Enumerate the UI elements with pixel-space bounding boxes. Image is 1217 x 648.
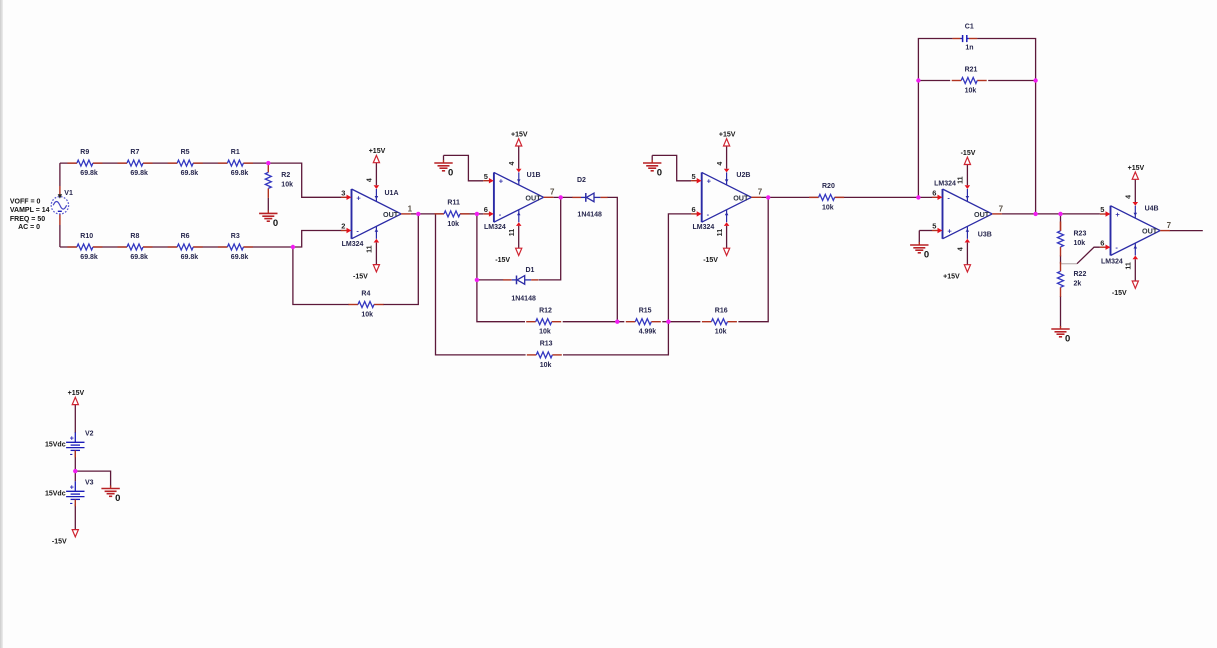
- junction D2-R12 node: [615, 320, 619, 324]
- V1 parameter text: [10, 199, 50, 231]
- junction R21 left node: [916, 78, 920, 82]
- wire U2B pin5 ground hook: [652, 155, 691, 180]
- svg-text:R15: R15: [639, 308, 652, 315]
- wire mid node to ground: [75, 471, 110, 486]
- svg-text:11: 11: [1126, 262, 1133, 270]
- svg-text:7: 7: [999, 204, 1004, 213]
- ground 0 at V2 V3 mid: [101, 486, 120, 504]
- wire U1B pin5 ground hook: [444, 155, 484, 180]
- junction R23 top node: [1058, 212, 1062, 216]
- wire top ladder to U1A pin3: [268, 163, 341, 197]
- svg-text:OUT: OUT: [525, 193, 541, 202]
- wire U1B ground stem: [443, 155, 445, 160]
- svg-text:OUT: OUT: [733, 193, 749, 202]
- svg-text:69.8k: 69.8k: [231, 254, 249, 261]
- wire bottom ladder to U1A pin2: [293, 231, 341, 248]
- wire bottom ladder net a: [60, 246, 77, 248]
- svg-text:-15V: -15V: [52, 538, 67, 545]
- power symbol -15V below V3: [52, 530, 78, 546]
- svg-text:5: 5: [1100, 205, 1104, 214]
- wire top ladder net c: [143, 162, 177, 164]
- svg-text:1N4148: 1N4148: [577, 212, 602, 219]
- power symbol +15V at U2B: [719, 132, 736, 147]
- wire R15 R16 row: [662, 321, 700, 323]
- wire U3B output row: [1002, 213, 1100, 215]
- svg-text:-: -: [499, 210, 502, 219]
- junction R1-R2 node: [266, 161, 270, 165]
- svg-text:11: 11: [509, 229, 516, 237]
- svg-text:U1A: U1A: [385, 190, 399, 197]
- svg-text:+15V: +15V: [1128, 165, 1145, 172]
- wire R23 bottom to junction: [1060, 255, 1062, 263]
- svg-text:C1: C1: [965, 23, 974, 30]
- svg-text:10k: 10k: [540, 362, 552, 369]
- svg-text:-15V: -15V: [703, 257, 718, 264]
- svg-text:69.8k: 69.8k: [130, 170, 148, 177]
- wire V2 top stem: [74, 405, 76, 433]
- resistor R6: [168, 233, 203, 261]
- svg-text:1N4148: 1N4148: [511, 296, 536, 303]
- svg-text:R8: R8: [130, 233, 139, 240]
- wire top ladder net d: [193, 162, 227, 164]
- wire U1B pin6 column: [477, 214, 525, 322]
- svg-text:-15V: -15V: [495, 257, 510, 264]
- svg-text:R5: R5: [181, 149, 190, 156]
- svg-text:+: +: [70, 485, 74, 492]
- svg-text:FREQ = 50: FREQ = 50: [10, 216, 45, 223]
- wire diagonal wire to U4B pin6: [1077, 247, 1100, 264]
- svg-text:4: 4: [367, 178, 374, 182]
- wire top ladder net b: [93, 162, 127, 164]
- wire top ladder net e: [243, 162, 268, 164]
- wire V1 bottom lead: [59, 225, 61, 247]
- svg-text:4.99k: 4.99k: [639, 329, 657, 336]
- wire R23 top lead wire: [1060, 222, 1062, 231]
- svg-text:LM324: LM324: [1101, 258, 1123, 265]
- wire bottom ladder net b: [93, 246, 127, 248]
- svg-text:1n: 1n: [965, 44, 973, 51]
- resistor R15: [626, 308, 661, 336]
- capacitor C1: [953, 23, 978, 51]
- svg-text:R11: R11: [447, 200, 460, 207]
- svg-text:+15V: +15V: [719, 132, 736, 139]
- svg-text:0: 0: [1065, 333, 1070, 344]
- wire R15-R16 node to U2B pin6: [668, 214, 691, 322]
- wire R16 to U2B output column: [738, 197, 768, 321]
- ground 0 below R22: [1051, 326, 1070, 344]
- power symbol -15V at U2B: [703, 248, 729, 264]
- svg-text:D2: D2: [577, 177, 586, 184]
- svg-text:69.8k: 69.8k: [181, 170, 199, 177]
- svg-text:VOFF = 0: VOFF = 0: [10, 199, 41, 206]
- svg-text:4: 4: [717, 162, 724, 166]
- svg-text:R20: R20: [822, 183, 835, 190]
- op-amp U3B: [932, 176, 1004, 251]
- wire V1 top pin: [59, 186, 61, 197]
- svg-text:15Vdc: 15Vdc: [45, 490, 66, 497]
- svg-text:7: 7: [1167, 221, 1172, 230]
- svg-text:V3: V3: [85, 479, 94, 486]
- svg-text:0: 0: [924, 249, 929, 260]
- svg-text:6: 6: [692, 205, 696, 214]
- svg-text:U1B: U1B: [527, 172, 541, 179]
- svg-text:11: 11: [958, 176, 965, 184]
- svg-text:R16: R16: [715, 308, 728, 315]
- svg-text:R2: R2: [281, 172, 290, 179]
- svg-text:+15V: +15V: [369, 148, 386, 155]
- wire D2 to R12 column: [607, 197, 617, 321]
- power symbol +15V at U1A: [369, 148, 386, 163]
- wire U3B V- stem: [966, 165, 968, 186]
- svg-text:VAMPL = 14: VAMPL = 14: [10, 207, 50, 214]
- wire R13 to R15 junction: [563, 322, 668, 355]
- svg-text:-: -: [947, 193, 950, 202]
- svg-text:-15V: -15V: [961, 150, 976, 157]
- svg-text:7: 7: [758, 188, 763, 197]
- wire V3 bottom stem: [74, 504, 76, 529]
- junction R11-U1B pin6 node: [475, 212, 479, 216]
- svg-text:0: 0: [657, 167, 662, 178]
- wire U2B V- stem: [726, 226, 728, 248]
- svg-text:4: 4: [509, 162, 516, 166]
- resistor R16: [702, 308, 737, 336]
- svg-text:R9: R9: [80, 149, 89, 156]
- svg-text:10k: 10k: [539, 329, 551, 336]
- wire D1 to output column: [539, 197, 561, 280]
- wire U2B V+ stem: [726, 146, 728, 169]
- svg-text:R1: R1: [231, 149, 240, 156]
- wire U1B V+ stem: [518, 146, 520, 169]
- svg-text:7: 7: [550, 188, 555, 197]
- junction U1A output node 1: [416, 212, 420, 216]
- svg-text:3: 3: [341, 188, 345, 197]
- svg-text:0: 0: [448, 167, 453, 178]
- svg-text:OUT: OUT: [1142, 227, 1158, 236]
- svg-text:+: +: [1115, 210, 1120, 219]
- svg-text:2: 2: [341, 222, 345, 231]
- svg-text:-: -: [70, 449, 73, 459]
- svg-text:69.8k: 69.8k: [130, 254, 148, 261]
- D2 labels: [577, 177, 602, 219]
- battery V3: [45, 479, 94, 508]
- svg-text:+: +: [70, 436, 74, 443]
- svg-text:+: +: [356, 193, 361, 202]
- wire U4B V+ stem: [1134, 179, 1136, 202]
- wire U1A output net a: [411, 213, 444, 215]
- svg-text:LM324: LM324: [693, 224, 715, 231]
- op-amp U4B: [1100, 195, 1172, 270]
- wire U1B output to D2: [553, 196, 572, 198]
- wire bottom ladder net e: [243, 246, 293, 248]
- wire U3B V+ stem: [966, 243, 968, 265]
- power symbol -15V at U1B: [495, 248, 521, 264]
- svg-text:R13: R13: [540, 341, 553, 348]
- wire U1B V- stem: [518, 226, 520, 248]
- wire U3B pin5 ground hook: [919, 230, 932, 232]
- wire R4 feedback right: [383, 214, 418, 305]
- svg-text:15Vdc: 15Vdc: [45, 441, 66, 448]
- svg-text:10k: 10k: [447, 221, 459, 228]
- wire U4B V- stem: [1134, 259, 1136, 281]
- junction bottom ladder node: [291, 245, 295, 249]
- wire U4B output wire: [1170, 230, 1203, 232]
- wire R23 top column: [1060, 214, 1062, 222]
- svg-text:+: +: [707, 177, 712, 186]
- svg-text:-: -: [1115, 243, 1118, 252]
- op-amp U1B: [483, 162, 555, 237]
- junction U3B pin6 node: [916, 195, 920, 199]
- resistor R4: [349, 290, 384, 318]
- svg-text:6: 6: [1100, 238, 1104, 247]
- svg-text:10k: 10k: [715, 329, 727, 336]
- resistor R9: [67, 149, 102, 177]
- svg-text:-: -: [707, 210, 710, 219]
- svg-text:11: 11: [717, 229, 724, 237]
- wire U1A output net b: [460, 213, 477, 215]
- wire node to R13 column: [436, 214, 526, 355]
- svg-text:R22: R22: [1074, 271, 1087, 278]
- svg-text:0: 0: [273, 218, 278, 229]
- resistor R20: [809, 183, 844, 211]
- wire R21 row right: [988, 80, 1035, 82]
- power symbol -15V at U3B: [961, 150, 976, 165]
- resistor R7: [118, 149, 153, 177]
- ground 0 at U3B pin5: [910, 242, 929, 260]
- svg-text:+: +: [947, 227, 952, 236]
- wire U1A V- stem: [375, 243, 377, 265]
- power symbol -15V at U1A: [353, 265, 379, 281]
- svg-text:10k: 10k: [822, 204, 834, 211]
- svg-text:11: 11: [367, 245, 374, 253]
- resistor R1: [218, 149, 253, 177]
- svg-text:6: 6: [484, 205, 488, 214]
- wire R22 bottom to ground: [1060, 296, 1062, 327]
- svg-text:+15V: +15V: [68, 390, 85, 397]
- wire bottom ladder net d: [193, 246, 227, 248]
- resistor R2: [265, 163, 293, 198]
- resistor R11: [435, 200, 470, 228]
- battery V2: [45, 430, 94, 459]
- diode D2: [572, 193, 607, 202]
- wire gray net segment: [1061, 263, 1078, 265]
- junction U2B output node 7: [766, 195, 770, 199]
- svg-text:R6: R6: [181, 233, 190, 240]
- svg-text:+: +: [499, 177, 504, 186]
- wire R12 row: [563, 321, 625, 323]
- power symbol -15V at U4B: [1112, 281, 1138, 297]
- svg-text:10k: 10k: [361, 311, 373, 318]
- power symbol +15V at U4B: [1128, 165, 1145, 180]
- svg-text:R23: R23: [1074, 230, 1087, 237]
- resistor R5: [168, 149, 203, 177]
- wire C1 right to column: [977, 39, 1036, 214]
- svg-text:R10: R10: [80, 233, 93, 240]
- svg-text:4: 4: [1126, 195, 1133, 199]
- wire top ladder net a: [60, 162, 77, 164]
- resistor R21: [952, 66, 987, 94]
- resistor R8: [118, 233, 153, 261]
- junction D1 anode node: [475, 278, 479, 282]
- svg-text:5: 5: [932, 222, 936, 231]
- wire R2 to ground: [267, 198, 269, 211]
- svg-text:LM324: LM324: [484, 224, 506, 231]
- junction R15-R16 node: [666, 320, 670, 324]
- wire bottom ladder net c: [143, 246, 177, 248]
- power symbol +15V at U1B: [511, 132, 528, 147]
- wire V1 top lead: [59, 163, 61, 186]
- svg-text:69.8k: 69.8k: [231, 170, 249, 177]
- wire V1 bottom pin: [59, 214, 61, 225]
- svg-text:-: -: [356, 227, 359, 236]
- svg-text:5: 5: [692, 172, 696, 181]
- svg-text:69.8k: 69.8k: [80, 170, 98, 177]
- power symbol +15V above V2: [68, 390, 85, 405]
- svg-text:-15V: -15V: [1112, 290, 1127, 297]
- wire R4 feedback left: [293, 247, 349, 305]
- junction R21 right node: [1033, 78, 1037, 82]
- svg-text:OUT: OUT: [383, 210, 399, 219]
- diode D1: [503, 276, 538, 285]
- junction U3B output node 7: [1033, 212, 1037, 216]
- ground 0 at U2B pin5: [643, 160, 662, 178]
- wire R21 row left: [918, 80, 950, 82]
- resistor R23: [1058, 221, 1087, 256]
- svg-text:6: 6: [932, 188, 936, 197]
- svg-text:10k: 10k: [1074, 240, 1086, 247]
- svg-text:2k: 2k: [1074, 281, 1082, 288]
- wire U3B pin5 ground drop: [918, 231, 920, 243]
- junction V2-V3 mid node: [73, 469, 77, 473]
- svg-text:D1: D1: [526, 267, 535, 274]
- wire R20 to U3B pin6: [835, 196, 932, 198]
- voltage source V1: [51, 190, 73, 214]
- svg-text:AC = 0: AC = 0: [18, 224, 40, 231]
- op-amp U2B: [691, 162, 763, 237]
- wire feedback column left: [918, 39, 952, 198]
- svg-text:U3B: U3B: [978, 231, 992, 238]
- svg-text:10k: 10k: [281, 182, 293, 189]
- wire U1A V+ stem: [375, 163, 377, 186]
- D1 labels: [511, 267, 536, 303]
- svg-text:OUT: OUT: [974, 210, 990, 219]
- svg-text:69.8k: 69.8k: [80, 254, 98, 261]
- svg-text:69.8k: 69.8k: [181, 254, 199, 261]
- svg-text:0: 0: [115, 493, 120, 504]
- wire U2B output to R20: [761, 196, 819, 198]
- svg-text:R7: R7: [130, 149, 139, 156]
- svg-text:U2B: U2B: [736, 172, 750, 179]
- svg-text:1: 1: [408, 204, 413, 213]
- svg-text:R3: R3: [231, 233, 240, 240]
- resistor R13: [527, 341, 562, 369]
- op-amp U1A: [341, 178, 413, 253]
- ground 0 below R2: [259, 210, 278, 228]
- svg-text:-: -: [70, 498, 73, 508]
- svg-text:-15V: -15V: [353, 273, 368, 280]
- svg-text:10k: 10k: [965, 87, 977, 94]
- svg-text:R21: R21: [965, 66, 978, 73]
- wire U2B ground stem: [651, 155, 653, 160]
- resistor R3: [218, 233, 253, 261]
- resistor R12: [526, 308, 561, 336]
- svg-text:V2: V2: [85, 430, 94, 437]
- wire U1B pin6 stub wire: [477, 213, 483, 215]
- ground 0 at U1B pin5: [434, 160, 453, 178]
- resistor R22: [1058, 262, 1087, 297]
- svg-text:LM324: LM324: [934, 181, 956, 188]
- svg-text:R12: R12: [539, 308, 552, 315]
- svg-text:5: 5: [484, 172, 488, 181]
- svg-text:+15V: +15V: [943, 274, 960, 281]
- svg-text:U4B: U4B: [1145, 206, 1159, 213]
- power symbol +15V at U3B: [943, 265, 970, 281]
- svg-text:4: 4: [958, 247, 965, 251]
- svg-text:LM324: LM324: [342, 241, 364, 248]
- svg-text:R4: R4: [361, 290, 370, 297]
- svg-text:V1: V1: [64, 190, 73, 197]
- resistor R10: [67, 233, 102, 261]
- wire V2 V3 mid column: [74, 450, 76, 481]
- svg-text:+15V: +15V: [511, 132, 528, 139]
- junction U1B output node 7: [559, 195, 563, 199]
- wire D1 row left: [477, 279, 503, 281]
